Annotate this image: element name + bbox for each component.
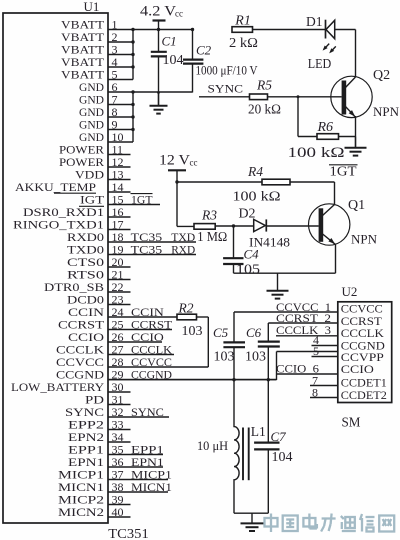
U1 pin 33 number and wire stub bbox=[108, 417, 131, 431]
wire C4 to Q1 emitter bbox=[234, 272, 336, 274]
svg-text:SYNC: SYNC bbox=[131, 405, 164, 419]
LED D1 bbox=[326, 20, 356, 39]
wire R3 to D2 bbox=[215, 225, 253, 227]
svg-text:U2: U2 bbox=[342, 284, 358, 299]
svg-text:RXD: RXD bbox=[171, 242, 195, 256]
U1 pin 25 number and wire stub bbox=[108, 317, 172, 331]
U1 pin 36 number and wire stub bbox=[108, 455, 163, 469]
U1 pin 13 number and wire stub bbox=[108, 167, 131, 181]
svg-text:MICN1: MICN1 bbox=[131, 480, 172, 494]
resistor R5 bbox=[250, 94, 268, 100]
underline of IGT label bbox=[79, 205, 104, 207]
svg-text:103: 103 bbox=[214, 350, 235, 365]
svg-text:100 kΩ: 100 kΩ bbox=[233, 190, 281, 205]
svg-text:CCDET2: CCDET2 bbox=[341, 388, 387, 402]
U1 pin 38 number and wire stub bbox=[108, 480, 168, 494]
capacitor bbox=[254, 443, 279, 450]
svg-text:C5: C5 bbox=[213, 325, 229, 340]
U1 pin 3 number and wire stub bbox=[108, 42, 133, 56]
svg-text:MICN2: MICN2 bbox=[58, 505, 104, 519]
svg-text:R4: R4 bbox=[247, 164, 263, 179]
U1 pin 35 number and wire stub bbox=[108, 442, 163, 456]
U1 pin 6 number and wire stub bbox=[108, 80, 193, 94]
transistor Q1 NPN bbox=[309, 204, 350, 273]
ground G4 bottom bbox=[241, 513, 264, 531]
wire to R6 left bbox=[298, 136, 317, 138]
junction C5 branch x CCGND bus bbox=[232, 378, 235, 381]
wire C5 down to L1 bbox=[233, 347, 235, 423]
inductor L1 bbox=[234, 423, 249, 513]
svg-text:TC351: TC351 bbox=[108, 526, 149, 540]
U1 pin 11 number and wire stub bbox=[108, 142, 131, 156]
junction C4 tap bbox=[232, 224, 235, 227]
svg-text:12 V: 12 V bbox=[159, 153, 190, 169]
svg-text:CCCLK 3: CCCLK 3 bbox=[276, 323, 331, 337]
wire C4 upper bbox=[233, 226, 235, 258]
resistor R4 bbox=[262, 179, 290, 185]
capacitor bbox=[258, 342, 280, 347]
svg-text:20 kΩ: 20 kΩ bbox=[248, 103, 281, 118]
capacitor bbox=[183, 60, 203, 64]
svg-text:C2: C2 bbox=[196, 43, 212, 58]
wire bottom L1 to C7 bbox=[234, 512, 268, 514]
wire down to R6 bbox=[297, 97, 299, 137]
underline of TEMP in AKKU_TEMP bbox=[54, 192, 96, 194]
svg-text:104: 104 bbox=[163, 53, 184, 68]
svg-text:NPN: NPN bbox=[351, 232, 378, 247]
svg-text:L1: L1 bbox=[251, 424, 266, 439]
LED arrows of D1 bbox=[323, 44, 336, 54]
junction C2 tap on VBATT wire bbox=[191, 28, 194, 31]
capacitor C6 bbox=[267, 323, 269, 341]
U1 pin 8 number and wire stub bbox=[108, 105, 133, 119]
svg-text:SYNC: SYNC bbox=[208, 81, 244, 95]
svg-text:TC35: TC35 bbox=[131, 242, 163, 256]
wire 12V rail to R3 bbox=[177, 225, 194, 227]
wire C6 down to C7 bbox=[267, 347, 269, 442]
U1 pin 29 number and wire stub bbox=[108, 367, 277, 381]
svg-text:C4: C4 bbox=[244, 247, 260, 262]
U1 pin 34 number and wire stub bbox=[108, 430, 131, 444]
junction R4 tap bbox=[175, 180, 178, 183]
op-amp/IC U1 TC35 module box bbox=[3, 13, 108, 523]
transistor Q2 NPN bbox=[331, 76, 372, 147]
svg-text:U1: U1 bbox=[84, 0, 100, 14]
U1 pin 37 number and wire stub bbox=[108, 467, 168, 481]
U1 pin 24 number and wire stub bbox=[108, 305, 177, 319]
resistor R3 bbox=[194, 224, 215, 230]
svg-text:cc: cc bbox=[175, 8, 183, 18]
wire D1 cathode down to Q2 collector bbox=[355, 30, 357, 78]
wire C2 upper bbox=[192, 30, 194, 60]
U1 pin 32 number and wire stub bbox=[108, 405, 169, 419]
U1 pin 7 number and wire stub bbox=[108, 92, 133, 106]
svg-text:100 kΩ: 100 kΩ bbox=[288, 145, 345, 161]
overline of 1GT bbox=[329, 164, 358, 166]
svg-text:cc: cc bbox=[190, 158, 198, 168]
svg-text:Q1: Q1 bbox=[348, 198, 365, 213]
U1 pin 17 number and wire stub bbox=[108, 217, 131, 231]
ground G3 below Q1 bbox=[267, 273, 289, 298]
wire CCGND from U2 pin4 row to ground bus bbox=[277, 351, 338, 353]
svg-text:NPN: NPN bbox=[373, 104, 400, 119]
watermark 中国电力通信网 (drawn) bbox=[265, 514, 395, 533]
junction R6 tap bbox=[297, 95, 300, 98]
svg-text:R2: R2 bbox=[178, 301, 194, 316]
U1 pin 28 number and wire stub bbox=[108, 355, 208, 369]
svg-text:103: 103 bbox=[245, 350, 266, 365]
U1 pin 18 number and wire stub bbox=[108, 230, 196, 244]
svg-text:R1: R1 bbox=[234, 13, 251, 28]
wire down to Q1 collector bbox=[334, 182, 336, 205]
wire C7 lower bbox=[267, 449, 269, 513]
wire 12V rail down bbox=[176, 170, 178, 226]
junction pin1 wire x 4.2V rail bbox=[157, 28, 160, 31]
12V supply T-bar bbox=[168, 169, 186, 171]
overline of 1GT pin15 bbox=[131, 193, 153, 195]
ground G2 at Q2 emitter bbox=[345, 137, 367, 156]
svg-text:R3: R3 bbox=[201, 208, 217, 223]
4.2V supply T-bar bbox=[153, 19, 166, 21]
U1 pin 21 number and wire stub bbox=[108, 267, 131, 281]
capacitor C5 bbox=[233, 312, 235, 342]
U1 pin 4 number and wire stub bbox=[108, 55, 133, 69]
IC U2 SIM holder box bbox=[338, 302, 392, 403]
svg-text:1GT: 1GT bbox=[131, 192, 153, 206]
wire C4 lower bbox=[233, 264, 235, 273]
svg-text:CCIO: CCIO bbox=[341, 362, 374, 376]
svg-text:2 kΩ: 2 kΩ bbox=[229, 36, 258, 51]
wire 4.2V rail lower to ground bbox=[158, 56, 160, 105]
svg-text:104: 104 bbox=[272, 450, 293, 465]
U1 pin 20 number and wire stub bbox=[108, 255, 131, 269]
wire 12V to R4 bbox=[177, 181, 262, 183]
resistor R2 bbox=[177, 314, 197, 320]
svg-text:D2: D2 bbox=[239, 205, 256, 220]
wire R4 to Q1 collector corner bbox=[290, 181, 335, 183]
svg-text:C7: C7 bbox=[271, 429, 287, 444]
svg-text:R5: R5 bbox=[256, 77, 272, 92]
svg-text:1 MΩ: 1 MΩ bbox=[197, 230, 227, 245]
wire bus GND pins 6-10 bbox=[132, 92, 134, 142]
U1 pin 27 number and wire stub bbox=[108, 342, 174, 356]
svg-text:C1: C1 bbox=[162, 33, 177, 48]
diode D2 IN4148 bbox=[254, 219, 267, 231]
wire R2 down to CCVCC bbox=[207, 317, 209, 367]
wire bus VBATT pins 1-5 bbox=[132, 30, 134, 80]
U1 pin 30 number and wire stub bbox=[108, 380, 131, 394]
svg-text:D1: D1 bbox=[306, 14, 323, 29]
wire SYNC to R5 bbox=[199, 96, 250, 98]
svg-text:LED: LED bbox=[308, 56, 332, 71]
svg-text:Q2: Q2 bbox=[373, 68, 390, 83]
wire R6 to Q2 emitter node bbox=[339, 136, 356, 138]
svg-text:1GT: 1GT bbox=[330, 164, 358, 179]
wire D2 to Q1 base bbox=[266, 225, 318, 227]
U1 pin 23 number and wire stub bbox=[108, 292, 131, 306]
U1 pin 12 number and wire stub bbox=[108, 155, 131, 169]
U1 pin 14 number and wire stub bbox=[108, 180, 131, 194]
U1 pin 19 number and wire stub bbox=[108, 242, 196, 256]
U1 pin 15 number and wire stub bbox=[108, 192, 160, 206]
capacitor bbox=[151, 52, 167, 57]
junction GND wire x rail bbox=[157, 91, 160, 94]
U1 pin 40 number and wire stub bbox=[108, 505, 131, 519]
svg-text:4.2 V: 4.2 V bbox=[140, 3, 176, 19]
ground G1 below C1 bbox=[150, 93, 168, 114]
wire R5 to Q2 base bbox=[268, 96, 342, 98]
capacitor bbox=[223, 258, 243, 264]
U1 pin 16 number and wire stub bbox=[108, 205, 131, 219]
svg-text:103: 103 bbox=[182, 324, 203, 339]
U1 pin 1 number and wire stub bbox=[108, 17, 193, 31]
U1 pin 9 number and wire stub bbox=[108, 117, 133, 131]
svg-text:SM: SM bbox=[342, 416, 362, 431]
U1 pin 10 number and wire stub bbox=[108, 130, 133, 144]
U1 pin 2 number and wire stub bbox=[108, 30, 133, 44]
wire R2 right bbox=[197, 316, 209, 318]
U1 pin 26 number and wire stub bbox=[108, 330, 162, 344]
resistor R1 bbox=[232, 27, 253, 33]
svg-text:1000 μF/10 V: 1000 μF/10 V bbox=[196, 63, 258, 77]
wire C2 lower bbox=[192, 64, 194, 93]
svg-text:10 μH: 10 μH bbox=[197, 438, 228, 453]
wire R1 to D1 bbox=[253, 29, 326, 31]
junction C6 branch x CCGND bus bbox=[267, 378, 270, 381]
svg-text:C6: C6 bbox=[246, 325, 262, 340]
U1 pin 5 number and wire stub bbox=[108, 67, 133, 81]
capacitor bbox=[223, 342, 245, 347]
resistor R6 bbox=[317, 134, 339, 140]
wire 4.2V rail upper bbox=[158, 21, 160, 52]
svg-text:105: 105 bbox=[236, 263, 260, 278]
U1 pin 22 number and wire stub bbox=[108, 280, 131, 294]
svg-text:R6: R6 bbox=[317, 120, 334, 135]
U1 pin 31 number and wire stub bbox=[108, 392, 131, 406]
U1 pin 39 number and wire stub bbox=[108, 492, 131, 506]
wire CCGND bus pin29 bbox=[108, 379, 277, 381]
